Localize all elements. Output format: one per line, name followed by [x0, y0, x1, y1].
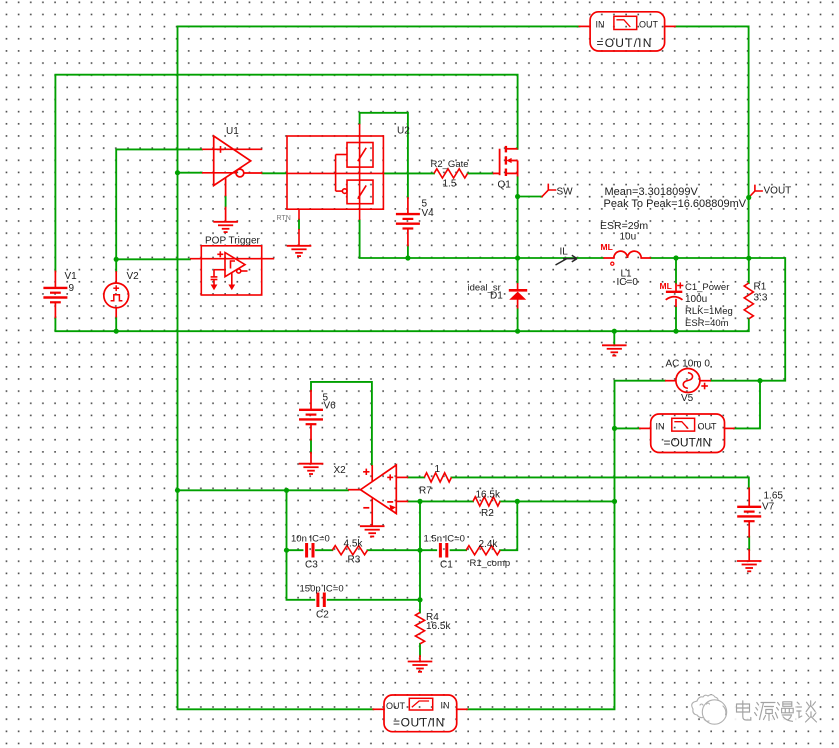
watermark logo text dianyuan mantan	[734, 701, 816, 722]
POP Trigger block	[190, 246, 274, 295]
capacitor C3 10n	[307, 543, 313, 558]
wire SW probe stub	[518, 196, 543, 198]
op-amp U1	[202, 136, 262, 222]
svg-text:V2: V2	[127, 271, 140, 282]
resistor R7 1	[424, 473, 451, 482]
svg-text:10n IC=0: 10n IC=0	[291, 534, 330, 545]
wire U1 output to U2 input	[262, 172, 286, 174]
node mid box IN	[612, 426, 617, 431]
svg-text:V7: V7	[762, 502, 775, 513]
svg-text:C3: C3	[305, 560, 318, 571]
svg-text:Peak To Peak=16.608809mV: Peak To Peak=16.608809mV	[604, 198, 747, 210]
node compensation mid	[417, 548, 422, 553]
node VOUT probe	[746, 195, 751, 200]
node feedback sense	[612, 499, 617, 504]
node COMP at X2 output	[175, 488, 180, 493]
transistor Q1 MOSFET	[493, 146, 518, 177]
ground X2 negative supply	[360, 526, 385, 536]
wire SW rail from U2 pole bottom to L1	[360, 220, 604, 258]
svg-text:1.5: 1.5	[443, 179, 457, 190]
wire R2_Gate to Q1 gate	[468, 172, 493, 174]
svg-text:OUT: OUT	[639, 20, 659, 30]
svg-text:X2: X2	[334, 465, 347, 476]
battery V6 5V	[299, 410, 323, 424]
pulse source V2	[104, 271, 129, 317]
svg-text:ESR=40m: ESR=40m	[685, 318, 729, 329]
ground under R4	[408, 662, 433, 672]
op-amp X2	[348, 465, 408, 526]
node COMP at U1 inverting input	[175, 170, 180, 175]
svg-text:VOUT: VOUT	[764, 186, 792, 197]
wire VOUT rail from L1 to V5 plus	[651, 258, 785, 381]
capacitor C2 150p	[318, 593, 324, 608]
svg-text:9: 9	[69, 283, 75, 294]
svg-text:V6: V6	[324, 401, 337, 412]
svg-text:ML: ML	[601, 242, 613, 252]
wire V5 minus feedback vertical to bottom box IN	[467, 381, 665, 710]
resistor R1 3:3	[744, 283, 753, 319]
wire R1_comp up to minus input line	[500, 501, 517, 550]
wire U1 inverting input stub	[178, 172, 203, 174]
svg-text:ML: ML	[660, 281, 672, 291]
node V2 to POP trigger	[114, 257, 119, 262]
battery V1 9V	[43, 288, 67, 302]
svg-text:U2: U2	[397, 126, 410, 137]
wire ground stub on ground rail	[613, 331, 615, 345]
svg-text:IN: IN	[596, 20, 605, 30]
resistor R3 4.5k	[332, 546, 367, 555]
svg-text:16.5k: 16.5k	[476, 490, 501, 501]
wire SW node down to D1 cathode	[517, 177, 519, 284]
AC source V5	[665, 369, 711, 393]
svg-text:RTN: RTN	[277, 215, 291, 222]
wire ground rail bottom	[55, 317, 748, 331]
svg-text:R2: R2	[481, 508, 494, 519]
wire top box OUT to VOUT column	[675, 26, 749, 258]
node SW rail crossing	[515, 255, 520, 260]
svg-text:V4: V4	[422, 208, 435, 219]
svg-text:ESR=29m: ESR=29m	[600, 220, 648, 232]
svg-text:V5: V5	[681, 393, 694, 404]
ground under U1	[213, 222, 238, 232]
wire X2 output down to C2 row	[287, 490, 315, 600]
svg-text:=OUT/IN: =OUT/IN	[597, 36, 653, 50]
node X2 output branch	[284, 488, 289, 493]
node R1 top VOUT	[746, 256, 751, 261]
capacitor C1 1.5n	[440, 543, 446, 558]
svg-text:C2: C2	[316, 610, 329, 621]
watermark logo icon	[692, 695, 727, 724]
svg-text:R1: R1	[754, 282, 767, 293]
svg-text:IC=0: IC=0	[617, 277, 639, 288]
inductor L1	[603, 251, 650, 258]
svg-text:4.5k: 4.5k	[344, 539, 364, 550]
node V4 minus on rail	[405, 255, 410, 260]
svg-text:R3: R3	[348, 555, 361, 566]
node C3 left	[284, 548, 289, 553]
wire U2 RTN ground lead segment	[298, 220, 300, 229]
wire feedback divider vertical	[419, 501, 421, 612]
wire U2 output to R2_Gate	[383, 172, 434, 174]
svg-text:R7: R7	[419, 486, 432, 497]
svg-text:IL: IL	[560, 247, 569, 258]
svg-text:Mean=3.3018099V: Mean=3.3018099V	[605, 186, 699, 198]
svg-text:3:3: 3:3	[754, 293, 768, 304]
svg-text:U1: U1	[226, 126, 239, 137]
IL current probe arrow	[556, 255, 578, 265]
wire R7 to V7 reference	[451, 477, 748, 488]
svg-text:16.5k: 16.5k	[426, 621, 451, 632]
svg-text:POP Trigger: POP Trigger	[205, 236, 261, 247]
svg-text:Q1: Q1	[498, 180, 512, 191]
node minus input left	[417, 499, 422, 504]
svg-text:R2_Gate: R2_Gate	[431, 159, 469, 170]
svg-text:IN: IN	[656, 422, 665, 432]
resistor R1_comp 2.4k	[466, 546, 500, 555]
svg-text:2.4k: 2.4k	[479, 539, 499, 550]
wire D1 anode to ground rail	[517, 309, 519, 332]
resistor R2_Gate 1.5	[434, 169, 468, 178]
svg-text:C1: C1	[440, 560, 453, 571]
node minus input right	[515, 499, 520, 504]
wire R4 bottom lead	[419, 644, 421, 656]
ground RTN of U2	[287, 246, 312, 256]
svg-text:D1: D1	[490, 291, 503, 302]
svg-text:OUT: OUT	[698, 422, 718, 432]
resistor R2 16.5k	[473, 497, 500, 506]
battery V7 1.65V	[737, 507, 761, 521]
probe box top =OUT/IN	[590, 12, 665, 51]
wire V2 to POP trigger input	[116, 258, 190, 260]
ground on output rail	[602, 345, 627, 355]
svg-text:C1_Power: C1_Power	[685, 282, 729, 293]
wire V4 minus to SW rail	[407, 246, 409, 259]
ground under V6	[299, 464, 324, 474]
resistor R4 16.5k	[415, 613, 424, 644]
wire X2 plus input to R7	[408, 476, 424, 478]
svg-text:AC 10m 0: AC 10m 0	[666, 359, 711, 370]
svg-text:1.5n IC=0: 1.5n IC=0	[424, 534, 465, 545]
wire U2 pole top to V4 plus	[360, 113, 408, 198]
wire mid box IN lead	[615, 427, 640, 429]
svg-text:1.65: 1.65	[764, 491, 784, 502]
wire mid box OUT up to V5 plus node	[734, 381, 760, 429]
capacitor C1_Power	[666, 283, 683, 307]
ground under V7	[737, 561, 762, 571]
wire C1 to R1_comp	[451, 549, 467, 551]
svg-text:R1_comp: R1_comp	[470, 558, 511, 569]
wire R2 to feedback node	[500, 500, 614, 502]
wire to C3	[287, 549, 303, 551]
wire V2 bottom lead to ground rail	[115, 318, 117, 332]
wire R3 to C1 through node	[368, 549, 437, 551]
wire X2 minus input to R2	[408, 500, 473, 502]
svg-text:100u: 100u	[685, 294, 707, 305]
wire C1_Power bottom to ground rail	[675, 307, 677, 331]
wire V6 bottom lead	[310, 440, 312, 453]
wire X2 output to COMP vertical	[178, 489, 349, 491]
svg-text:OUT: OUT	[386, 701, 406, 711]
wire V6 to X2 positive supply	[311, 382, 372, 465]
probe SW	[542, 184, 555, 196]
node C1_Power top	[673, 255, 678, 260]
node V2 on ground rail	[114, 329, 119, 334]
wire C2 to R4 node	[328, 599, 420, 601]
svg-text:1: 1	[435, 464, 441, 475]
svg-text:150p IC=0: 150p IC=0	[300, 584, 344, 595]
wire U1 ground lead segment	[225, 196, 227, 207]
svg-text:=OUT/IN: =OUT/IN	[393, 716, 445, 730]
node C1_Power bottom	[673, 329, 678, 334]
svg-text:IN: IN	[441, 701, 450, 711]
node C2 right	[417, 597, 422, 602]
svg-text:SW: SW	[557, 187, 574, 198]
U1 plus input marker	[217, 146, 224, 153]
wire VOUT rail to C1_Power top	[675, 258, 677, 283]
wire V2 to U1 non-inverting input	[116, 149, 202, 271]
diode D1 ideal_sr	[509, 283, 527, 309]
probe box middle =OUT/IN	[651, 414, 725, 453]
wire C3 to R3	[316, 549, 332, 551]
node ground stub	[612, 329, 617, 334]
node SW	[515, 194, 520, 199]
svg-text:RLK=1Meg: RLK=1Meg	[685, 306, 733, 317]
svg-text:=OUT/IN: =OUT/IN	[664, 436, 712, 450]
wire COMP net top rail, left vertical and bottom run	[178, 26, 580, 709]
probe VOUT	[749, 185, 762, 197]
wire V7 bottom lead	[748, 537, 750, 550]
svg-text:10u: 10u	[620, 232, 637, 243]
node D1 on ground rail	[515, 329, 520, 334]
node V5 plus	[757, 378, 762, 383]
battery V4 5V	[396, 214, 420, 228]
probe box bottom =OUT/IN	[384, 695, 457, 732]
wire VIN rail V1 top to Q1 drain	[55, 75, 517, 272]
wire VOUT to R1 top	[748, 258, 750, 283]
svg-text:V1: V1	[65, 271, 78, 282]
switch block U2	[287, 124, 384, 246]
